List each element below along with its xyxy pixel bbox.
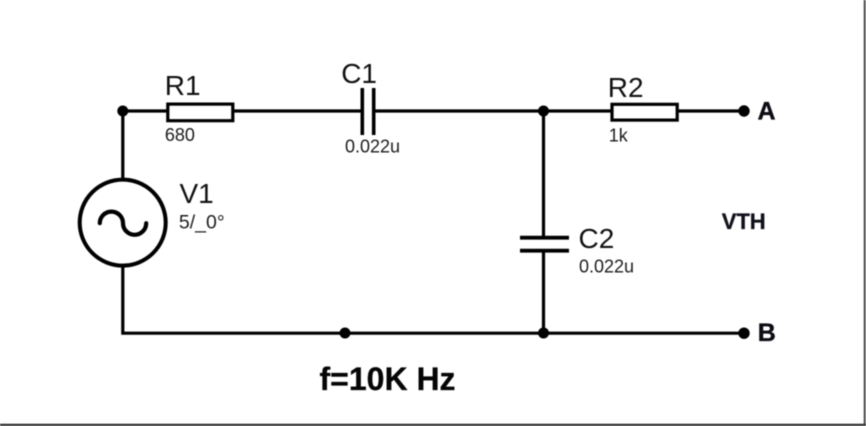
wire top rail right (C1 to terminal A) (374, 109, 744, 112)
svg-text:f=10K Hz: f=10K Hz (320, 361, 456, 397)
junction node bottom (C2) (538, 328, 549, 339)
resistor R1 (168, 104, 233, 121)
resistor R2 (612, 104, 677, 120)
svg-text:5/_0°: 5/_0° (179, 212, 225, 234)
svg-text:A: A (758, 98, 776, 126)
wire left branch upper (node to V1 top) (121, 111, 124, 181)
terminal B dot (738, 328, 749, 339)
junction node left (V1/R1) (117, 106, 128, 117)
page border bottom (0, 424, 866, 426)
svg-text:1k: 1k (609, 125, 629, 145)
capacitor C2 (520, 238, 569, 251)
wire left branch lower + bottom rail (V1 bottom to terminal B) (123, 265, 744, 333)
wire middle branch lower (C2 to bottom rail) (542, 252, 545, 333)
svg-text:B: B (758, 319, 776, 347)
svg-text:680: 680 (165, 125, 195, 145)
svg-text:VTH: VTH (722, 209, 766, 234)
terminal A dot (738, 105, 749, 116)
junction node middle top (C1/R2/C2) (538, 106, 549, 117)
wire top rail left (node to C1) (123, 109, 363, 112)
svg-text:R2: R2 (608, 72, 644, 103)
junction node bottom mid (340, 328, 351, 339)
voltage source V1 (80, 180, 166, 266)
capacitor C1 (362, 88, 373, 135)
svg-text:C1: C1 (341, 58, 377, 89)
wire middle branch upper (top rail to C2) (542, 111, 545, 236)
svg-text:V1: V1 (180, 178, 214, 209)
svg-text:0.022u: 0.022u (345, 136, 400, 156)
svg-text:R1: R1 (165, 70, 201, 101)
page border right (864, 0, 866, 426)
svg-text:C2: C2 (579, 223, 615, 254)
svg-text:0.022u: 0.022u (579, 257, 634, 277)
